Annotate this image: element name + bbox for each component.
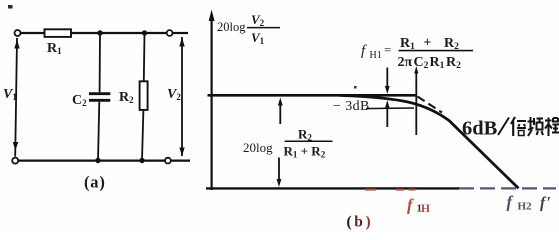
resistor R1 bbox=[45, 29, 72, 37]
speck top-left bbox=[8, 5, 13, 9]
svg-text:− 3dB: − 3dB bbox=[333, 99, 370, 114]
f_H1 marker line bbox=[415, 70, 417, 135]
svg-text:(b): (b) bbox=[347, 214, 374, 231]
terminal bottom-left bbox=[12, 158, 18, 164]
terminal bottom-right bbox=[165, 158, 171, 164]
svg-text:(a): (a) bbox=[84, 173, 106, 192]
CJK bei bbox=[511, 117, 526, 136]
node R2 bottom bbox=[139, 158, 144, 163]
response curve bbox=[340, 95, 519, 188]
wire R2 branch bottom bbox=[142, 110, 143, 161]
svg-text:H2: H2 bbox=[518, 201, 533, 213]
terminal top-left bbox=[15, 30, 21, 36]
svg-text:R2: R2 bbox=[119, 90, 134, 105]
x-axis bbox=[206, 187, 459, 189]
terminal top-right bbox=[167, 30, 173, 36]
node R2 top bbox=[142, 30, 147, 35]
svg-text:f: f bbox=[407, 196, 414, 215]
y-axis bbox=[211, 16, 213, 190]
svg-text:f: f bbox=[361, 43, 367, 59]
svg-text:V2: V2 bbox=[251, 12, 265, 28]
leader line bbox=[366, 107, 414, 110]
svg-text:f: f bbox=[507, 193, 514, 212]
svg-text:R2: R2 bbox=[444, 36, 459, 52]
svg-text:V2: V2 bbox=[167, 87, 181, 102]
svg-text:V1: V1 bbox=[251, 30, 265, 46]
svg-text:6dB: 6dB bbox=[462, 118, 498, 140]
3dB dimension arrows bbox=[386, 68, 388, 87]
resistor R2 bbox=[140, 81, 148, 110]
wire V2 arrow line bbox=[181, 37, 183, 156]
wire top rail stub bbox=[173, 32, 188, 34]
dashed asymptote bbox=[418, 97, 443, 113]
svg-text:R2: R2 bbox=[446, 55, 461, 71]
svg-text:H: H bbox=[421, 203, 430, 215]
svg-text:R1: R1 bbox=[400, 36, 415, 52]
wire top rail left bbox=[21, 32, 45, 34]
CJK cheng bbox=[545, 118, 559, 137]
wire R2 branch top bbox=[143, 33, 146, 81]
svg-text:C2: C2 bbox=[72, 93, 87, 108]
x-axis dashed end bbox=[459, 187, 556, 189]
speck bbox=[354, 86, 357, 89]
svg-text:2π: 2π bbox=[398, 55, 413, 70]
svg-text:V1: V1 bbox=[3, 87, 17, 102]
20log R2/(R1+R2) dimension arrows bbox=[279, 104, 281, 125]
svg-text:+: + bbox=[424, 35, 432, 50]
svg-text:C2: C2 bbox=[414, 55, 429, 71]
capacitor C2 bbox=[89, 92, 110, 95]
node C2 top bbox=[97, 30, 102, 35]
node C2 bottom bbox=[95, 158, 100, 163]
svg-text:20log: 20log bbox=[243, 140, 273, 155]
wire top rail right bbox=[71, 32, 167, 34]
wire C2 branch top bbox=[99, 33, 101, 92]
svg-text:=: = bbox=[384, 42, 391, 57]
flat response line bbox=[208, 94, 418, 97]
svg-text:R2: R2 bbox=[298, 127, 312, 143]
svg-text:R1: R1 bbox=[430, 55, 445, 71]
wire bottom rail stub bbox=[171, 160, 190, 162]
wire C2 branch bottom bbox=[98, 102, 99, 161]
svg-text:H1: H1 bbox=[370, 50, 382, 61]
svg-text:20log: 20log bbox=[217, 20, 246, 34]
svg-text:R1: R1 bbox=[47, 41, 62, 56]
wire V1 arrow line bbox=[15, 38, 17, 157]
svg-text:R1 + R2: R1 + R2 bbox=[284, 144, 326, 160]
wire bottom rail bbox=[18, 160, 165, 162]
svg-text:f ′: f ′ bbox=[540, 195, 551, 212]
x-axis red marks bbox=[365, 189, 416, 191]
CJK pin bbox=[528, 117, 544, 136]
